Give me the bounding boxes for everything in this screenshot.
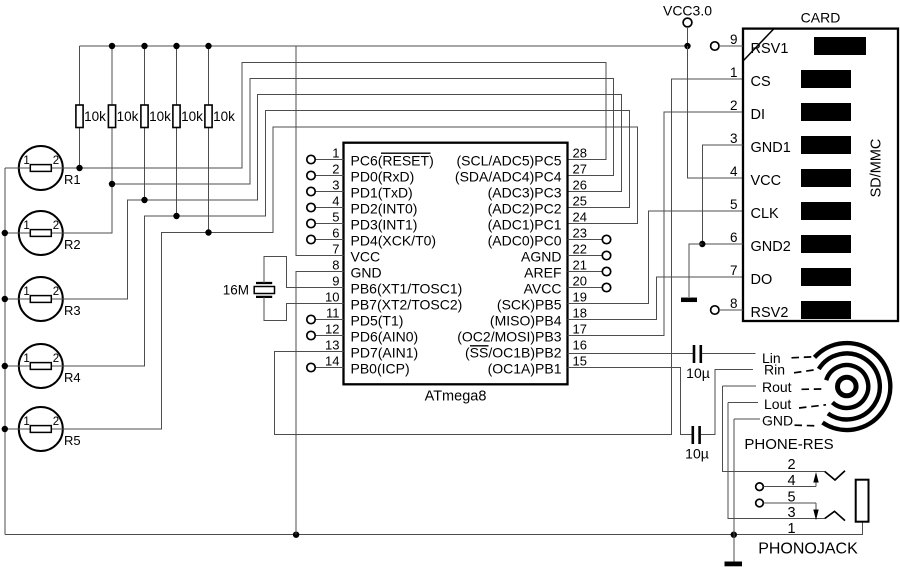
- svg-text:1: 1: [787, 521, 795, 537]
- svg-text:7: 7: [332, 242, 339, 257]
- svg-text:RSV1: RSV1: [751, 41, 789, 57]
- svg-text:15: 15: [573, 354, 587, 369]
- junction bottom bus / ATmega GND: [293, 532, 299, 538]
- U1 pin 6 (PD4(XCK/T0)): [307, 226, 436, 249]
- svg-text:DO: DO: [751, 272, 773, 288]
- crystal X1 16M: [223, 283, 275, 298]
- svg-text:1: 1: [332, 146, 339, 161]
- svg-text:10µ: 10µ: [686, 365, 710, 381]
- junction pull-up 5 / net R5/PC1: [205, 229, 211, 235]
- svg-text:24: 24: [573, 210, 587, 225]
- svg-text:1: 1: [23, 220, 29, 232]
- resistor 10k #1: [76, 105, 106, 128]
- svg-text:R1: R1: [64, 172, 81, 187]
- svg-text:4: 4: [332, 194, 339, 209]
- svg-text:PB6(XT1/TOSC1): PB6(XT1/TOSC1): [351, 280, 463, 296]
- svg-text:1: 1: [730, 65, 738, 80]
- junction on VCC bus: [205, 43, 211, 49]
- svg-text:1: 1: [23, 155, 29, 167]
- dashed leader Rin: [794, 370, 817, 373]
- svg-text:GND: GND: [762, 413, 793, 429]
- svg-text:(ADC3)PC3: (ADC3)PC3: [488, 184, 562, 200]
- junction left bus: [2, 426, 8, 432]
- wire VCC bus (top): [80, 45, 688, 47]
- svg-text:PD1(TxD): PD1(TxD): [351, 184, 413, 200]
- wire U1 pin16 OC1B to C1: [568, 353, 693, 355]
- junction pull-up 1 / net R1/PC5: [76, 165, 82, 171]
- svg-text:3: 3: [332, 178, 339, 193]
- svg-text:PD5(T1): PD5(T1): [351, 312, 404, 328]
- svg-text:(SS/OC1B)PB2: (SS/OC1B)PB2: [465, 344, 562, 360]
- wire pull-up resistor 2 vertical: [111, 46, 113, 233]
- svg-text:2: 2: [53, 220, 59, 232]
- wire net R1/PC5: [63, 63, 606, 169]
- ground symbol (bottom): [725, 562, 743, 567]
- U1 pin 13 (PD7(AIN1)): [325, 338, 418, 361]
- card contact pad GND2: [801, 235, 851, 253]
- U1 pin 24 ((ADC1)PC1): [488, 210, 587, 233]
- svg-text:11: 11: [326, 306, 340, 321]
- svg-text:10k: 10k: [181, 109, 203, 124]
- svg-text:R5: R5: [64, 433, 81, 448]
- svg-text:(OC2/MOSI)PB3: (OC2/MOSI)PB3: [457, 328, 561, 344]
- svg-text:2: 2: [787, 457, 795, 473]
- svg-text:PD0(RxD): PD0(RxD): [351, 168, 415, 184]
- wire card GND1 to ground: [702, 145, 743, 244]
- svg-text:PHONOJACK: PHONOJACK: [758, 541, 858, 558]
- SD/MMC card body: [743, 10, 898, 322]
- wire U1 pin15 OC1A to C2: [568, 368, 692, 435]
- card contact pad DO: [801, 268, 851, 286]
- wire C2 to Rin: [701, 370, 753, 435]
- label PHONOJACK: [758, 541, 858, 558]
- IC U1 ATmega8 body: [344, 143, 568, 405]
- dashed leader Lout: [799, 405, 826, 408]
- node Rout label: [722, 379, 791, 395]
- jack sleeve: [856, 480, 869, 522]
- svg-text:21: 21: [573, 258, 587, 273]
- node Rin label: [764, 361, 785, 377]
- capacitor C2 10u: [685, 426, 709, 462]
- wire U1 VCC pin7 to bus: [296, 46, 343, 256]
- svg-text:2: 2: [332, 162, 339, 177]
- wire net CS (U1 pin13 PD7 - card CS): [275, 79, 743, 435]
- svg-text:PD6(AIN0): PD6(AIN0): [351, 328, 419, 344]
- junction on VCC bus: [141, 43, 147, 49]
- svg-text:VCC: VCC: [751, 173, 782, 189]
- svg-text:7: 7: [730, 263, 738, 278]
- svg-text:Rout: Rout: [762, 379, 792, 395]
- U1 pin 12 (PD6(AIN0)): [307, 322, 418, 345]
- speaker arc inner: [826, 365, 868, 408]
- wire net MISO (U1 pin18 - card DO): [568, 277, 744, 320]
- U1 pin 1 (PC6(RESET)): [307, 146, 434, 169]
- svg-text:4: 4: [730, 164, 738, 179]
- svg-text:10µ: 10µ: [685, 446, 709, 462]
- U1 pin 5 (PD3(INT1)): [307, 210, 418, 233]
- wire Rout to jack pin 2: [722, 386, 825, 472]
- svg-text:5: 5: [332, 210, 339, 225]
- card pin 8 (RSV2): [730, 296, 788, 321]
- card pin 1 (CS): [730, 65, 771, 90]
- svg-text:AREF: AREF: [524, 264, 561, 280]
- svg-text:22: 22: [573, 242, 587, 257]
- svg-text:3: 3: [787, 505, 795, 521]
- svg-text:PB0(ICP): PB0(ICP): [351, 360, 410, 376]
- U1 pin 8 (GND): [332, 258, 381, 281]
- U1 pin 18 ((MISO)PB4): [490, 306, 587, 329]
- wire phone GND down to bus: [733, 419, 735, 535]
- svg-text:PD2(INT0): PD2(INT0): [351, 200, 418, 216]
- wire R5 pin1 to left bus: [5, 428, 19, 430]
- svg-text:(ADC0)PC0: (ADC0)PC0: [488, 232, 562, 248]
- U1 pin 28 ((SCL/ADC5)PC5): [456, 146, 587, 169]
- svg-text:6: 6: [730, 230, 738, 245]
- wire R2 pin1 to left bus: [5, 232, 19, 234]
- card contact pad DI: [801, 103, 851, 121]
- U1 pin 10 (PB7(XT2/TOSC2)): [325, 290, 462, 313]
- dashed leader Rout: [802, 388, 825, 390]
- svg-text:10: 10: [325, 290, 339, 305]
- U1 pin 16 ((SS/OC1B)PB2): [465, 338, 587, 361]
- svg-text:16: 16: [573, 338, 587, 353]
- wire crystal top to U1 pin9 XT1: [264, 256, 344, 287]
- svg-text:20: 20: [573, 274, 587, 289]
- dashed leader Lin: [792, 357, 814, 358]
- U1 pin 9 (PB6(XT1/TOSC1)): [332, 274, 462, 297]
- card contact pad CS: [801, 70, 851, 88]
- U1 pin 17 ((OC2/MOSI)PB3): [457, 322, 587, 345]
- svg-text:5: 5: [730, 197, 738, 212]
- svg-text:2: 2: [53, 286, 59, 298]
- svg-text:12: 12: [325, 322, 339, 337]
- svg-text:CS: CS: [751, 74, 771, 90]
- svg-text:10k: 10k: [84, 109, 106, 124]
- wire C1 to Lin: [702, 353, 756, 355]
- svg-text:17: 17: [573, 322, 587, 337]
- overline SS on U1 pin 16 name: [470, 345, 489, 347]
- pushbutton R3: [19, 277, 81, 321]
- wire pull-up resistor 3 vertical: [144, 46, 146, 200]
- wire left common bus: [4, 168, 6, 535]
- svg-text:9: 9: [730, 32, 738, 47]
- card pin 9 (RSV1): [730, 32, 788, 57]
- wire card GND2 to ground: [702, 243, 743, 245]
- U1 pin 27 ((SDA/ADC4)PC4): [455, 162, 587, 185]
- card contact pad GND1: [801, 136, 851, 154]
- svg-text:2: 2: [730, 98, 738, 113]
- wire Lout to jack pin 3: [728, 403, 825, 519]
- U1 pin 14 (PB0(ICP)): [307, 354, 410, 377]
- U1 pin 22 (AGND): [521, 242, 611, 265]
- wire net R3/PC3: [63, 95, 622, 300]
- wire net R2/PC4: [63, 79, 614, 234]
- resistor 10k #2: [108, 105, 138, 128]
- svg-text:(OC1A)PB1: (OC1A)PB1: [488, 360, 562, 376]
- svg-text:R2: R2: [64, 237, 81, 252]
- wire to ground symbol: [689, 244, 702, 297]
- svg-text:CARD: CARD: [801, 10, 841, 26]
- resistor 10k #3: [141, 105, 171, 128]
- junction bottom bus / phone GND: [731, 532, 737, 538]
- jack pin 4 switch terminal: [756, 472, 819, 491]
- svg-text:(SCL/ADC5)PC5: (SCL/ADC5)PC5: [456, 152, 561, 168]
- speaker PHONE-RES center dot: [838, 377, 857, 396]
- svg-text:2: 2: [53, 416, 59, 428]
- junction VCC bus / card VCC: [684, 43, 690, 49]
- card pin 7 (DO): [730, 263, 772, 288]
- U1 pin 4 (PD2(INT0)): [307, 194, 418, 217]
- svg-text:(SCK)PB5: (SCK)PB5: [497, 296, 562, 312]
- svg-text:23: 23: [573, 226, 587, 241]
- card pin 6 (GND2): [730, 230, 791, 255]
- svg-text:PD4(XCK/T0): PD4(XCK/T0): [351, 232, 437, 248]
- jack pin number 1: [787, 521, 795, 537]
- svg-text:PHONE-RES: PHONE-RES: [744, 436, 833, 453]
- card pin 4 (VCC): [730, 164, 781, 189]
- U1 pin 11 (PD5(T1)): [307, 306, 404, 329]
- card pin 2 (DI): [730, 98, 765, 123]
- pushbutton R4: [19, 344, 81, 388]
- U1 pin 20 (AVCC): [524, 274, 611, 297]
- svg-text:Rin: Rin: [764, 361, 785, 377]
- svg-text:13: 13: [325, 338, 339, 353]
- resistor 10k #4: [173, 105, 203, 128]
- svg-text:(ADC2)PC2: (ADC2)PC2: [488, 200, 562, 216]
- svg-text:8: 8: [332, 258, 339, 273]
- card contact pad VCC: [801, 169, 851, 187]
- svg-text:PC6(RESET): PC6(RESET): [351, 152, 434, 168]
- jack pin number 3: [787, 505, 795, 521]
- junction on VCC bus: [109, 43, 115, 49]
- jack pin 3 ring contact: [825, 511, 845, 520]
- wire pull-up resistor 4 vertical: [176, 46, 178, 216]
- card pin 5 (CLK): [730, 197, 779, 222]
- wire net R5/PC1: [63, 127, 638, 429]
- wire pull-up resistor 5 vertical: [208, 46, 210, 233]
- svg-text:10k: 10k: [149, 109, 171, 124]
- svg-text:(SDA/ADC4)PC4: (SDA/ADC4)PC4: [455, 168, 562, 184]
- jack pin number 5: [787, 490, 795, 506]
- junction left bus: [2, 230, 8, 236]
- svg-text:16M: 16M: [223, 283, 249, 298]
- svg-text:DI: DI: [751, 107, 766, 123]
- svg-text:PD3(INT1): PD3(INT1): [351, 216, 418, 232]
- card pin 9 RSV1 open terminal: [711, 42, 743, 50]
- U1 pin 2 (PD0(RxD)): [307, 162, 414, 185]
- svg-text:25: 25: [573, 194, 587, 209]
- resistor 10k #5: [205, 105, 235, 128]
- pushbutton R1: [19, 146, 81, 190]
- svg-text:5: 5: [787, 490, 795, 506]
- pushbutton R5: [19, 407, 81, 451]
- wire pull-up resistor 1 vertical: [79, 46, 81, 168]
- svg-text:VCC: VCC: [351, 248, 381, 264]
- svg-text:4: 4: [787, 473, 795, 489]
- junction pull-up 2 / net R2/PC4: [109, 181, 115, 187]
- svg-text:9: 9: [332, 274, 339, 289]
- svg-text:GND2: GND2: [751, 239, 791, 255]
- svg-text:2: 2: [53, 155, 59, 167]
- svg-text:(ADC1)PC1: (ADC1)PC1: [488, 216, 562, 232]
- svg-text:R3: R3: [64, 303, 81, 318]
- junction left bus: [2, 296, 8, 302]
- jack pin 5 switch terminal: [756, 499, 819, 520]
- wire net MOSI (U1 pin17 - card DI): [568, 112, 744, 336]
- svg-text:VCC3.0: VCC3.0: [663, 3, 712, 19]
- svg-text:1: 1: [23, 286, 29, 298]
- wire VCC to card pin 4: [688, 46, 744, 178]
- svg-text:PD7(AIN1): PD7(AIN1): [351, 344, 419, 360]
- wire to bottom ground symbol: [733, 535, 735, 562]
- capacitor C1 10u: [686, 345, 710, 381]
- node Lin label: [762, 350, 781, 366]
- svg-text:8: 8: [730, 296, 738, 311]
- speaker arc outer: [815, 343, 891, 430]
- U1 pin 26 ((ADC3)PC3): [488, 178, 587, 201]
- U1 pin 25 ((ADC2)PC2): [488, 194, 587, 217]
- U1 pin 19 ((SCK)PB5): [497, 290, 587, 313]
- junction pull-up 4 / net R4/PC2: [173, 213, 179, 219]
- svg-text:AVCC: AVCC: [524, 280, 562, 296]
- svg-text:26: 26: [573, 178, 587, 193]
- svg-text:28: 28: [573, 146, 587, 161]
- junction GND1/GND2: [699, 241, 705, 247]
- svg-text:27: 27: [573, 162, 587, 177]
- wire ground bottom bus: [5, 522, 863, 535]
- pushbutton R2: [19, 211, 81, 255]
- svg-text:18: 18: [573, 306, 587, 321]
- jack pin number 2: [787, 457, 795, 473]
- svg-text:1: 1: [23, 416, 29, 428]
- svg-text:10k: 10k: [117, 109, 139, 124]
- wire net SCK (U1 pin19 - card CLK): [568, 211, 744, 304]
- svg-text:(MISO)PB4: (MISO)PB4: [490, 312, 562, 328]
- wire R4 pin1 to left bus: [5, 365, 19, 367]
- junction left bus: [2, 363, 8, 369]
- U1 pin 15 ((OC1A)PB1): [488, 354, 587, 377]
- wire R3 pin1 to left bus: [5, 298, 19, 300]
- svg-text:AGND: AGND: [521, 248, 561, 264]
- U1 pin 3 (PD1(TxD)): [307, 178, 413, 201]
- svg-text:19: 19: [573, 290, 587, 305]
- svg-text:10k: 10k: [213, 109, 235, 124]
- card contact pad RSV2: [801, 301, 851, 319]
- svg-text:SD/MMC: SD/MMC: [869, 139, 885, 198]
- svg-text:Lout: Lout: [764, 396, 791, 412]
- power terminal VCC3.0: [663, 3, 712, 47]
- wire crystal bottom to U1 pin10 XT2: [264, 297, 344, 321]
- svg-text:6: 6: [332, 226, 339, 241]
- svg-text:GND1: GND1: [751, 140, 791, 156]
- svg-text:GND: GND: [351, 264, 382, 280]
- svg-text:1: 1: [23, 353, 29, 365]
- U1 pin 21 (AREF): [524, 258, 611, 281]
- overline RESET on U1 pin 1: [381, 152, 431, 154]
- wire net R4/PC2: [63, 111, 630, 367]
- svg-text:2: 2: [53, 353, 59, 365]
- svg-text:ATmega8: ATmega8: [425, 389, 487, 405]
- card pin 3 (GND1): [730, 131, 791, 156]
- U1 pin 23 ((ADC0)PC0): [488, 226, 611, 249]
- label PHONE-RES: [744, 436, 833, 453]
- U1 pin 7 (VCC): [332, 242, 380, 265]
- jack pin 2 tip contact: [825, 471, 845, 480]
- speaker arc middle: [819, 353, 880, 419]
- svg-text:RSV2: RSV2: [751, 305, 789, 321]
- svg-text:3: 3: [730, 131, 738, 146]
- node GND label (phone): [734, 413, 793, 429]
- wire R1 pin1 to left bus: [5, 167, 19, 169]
- jack pin number 4: [787, 473, 795, 489]
- svg-text:CLK: CLK: [751, 206, 780, 222]
- svg-text:R4: R4: [64, 370, 81, 385]
- card contact pad CLK: [801, 202, 851, 220]
- node Lout label: [728, 396, 791, 412]
- wire U1 GND pin8 to ground: [296, 272, 343, 535]
- card contact pad RSV1: [814, 37, 866, 55]
- junction pull-up 3 / net R3/PC3: [141, 197, 147, 203]
- junction on VCC bus: [173, 43, 179, 49]
- ground symbol (card): [681, 298, 697, 303]
- svg-text:PB7(XT2/TOSC2): PB7(XT2/TOSC2): [351, 296, 463, 312]
- svg-text:14: 14: [325, 354, 339, 369]
- card pin 8 RSV2 open terminal: [711, 306, 743, 314]
- dashed leader GND: [795, 424, 817, 427]
